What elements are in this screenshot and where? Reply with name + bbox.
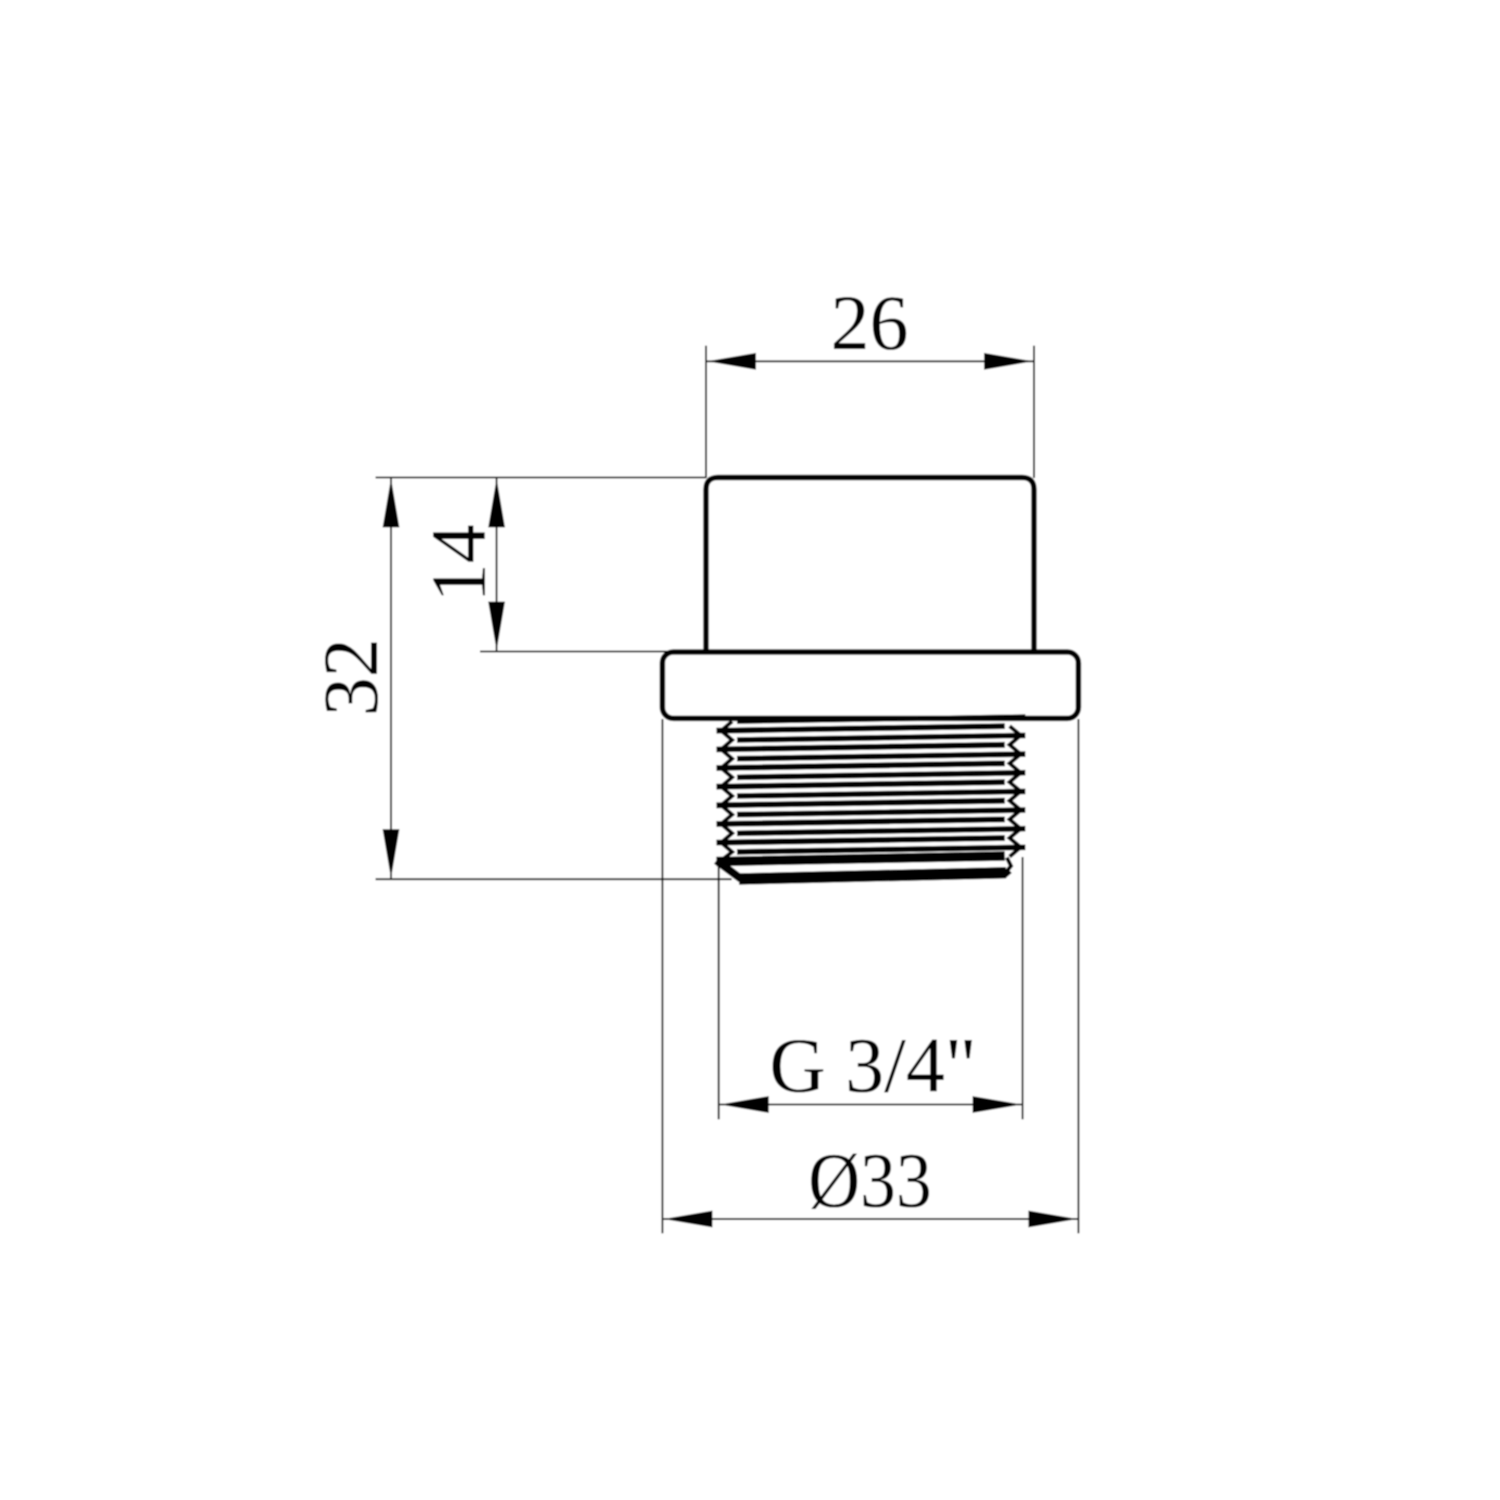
svg-text:G 3/4": G 3/4" xyxy=(769,1021,976,1108)
dimension 26: dimension line with arrows xyxy=(707,360,1033,362)
thread crest/root lines xyxy=(716,717,1025,852)
svg-text:32: 32 xyxy=(307,638,394,716)
dimension 14: extension line xyxy=(480,651,673,653)
dimension 14: dimension line with arrows xyxy=(496,478,498,650)
dimension 32: extension lines xyxy=(376,476,707,478)
thread right zigzag edge xyxy=(1010,726,1021,857)
dimension G 3/4: extension lines xyxy=(718,866,720,1119)
fitting body (top socket) xyxy=(706,478,1034,653)
svg-text:14: 14 xyxy=(415,524,502,602)
dimension D33: extension lines xyxy=(661,719,663,1233)
dimension 26: extension lines xyxy=(705,346,707,478)
thread bottom chamfer xyxy=(716,856,1004,862)
flange (hex collar front view) xyxy=(662,652,1078,718)
dimension D33: dimension line with arrows xyxy=(663,1218,1077,1220)
svg-text:Ø33: Ø33 xyxy=(808,1138,932,1224)
thread left zigzag edge xyxy=(721,721,732,860)
svg-text:26: 26 xyxy=(831,279,909,366)
dimension 32: dimension line with arrows xyxy=(390,478,392,878)
dimension G 3/4: dimension line with arrows xyxy=(720,1104,1022,1106)
